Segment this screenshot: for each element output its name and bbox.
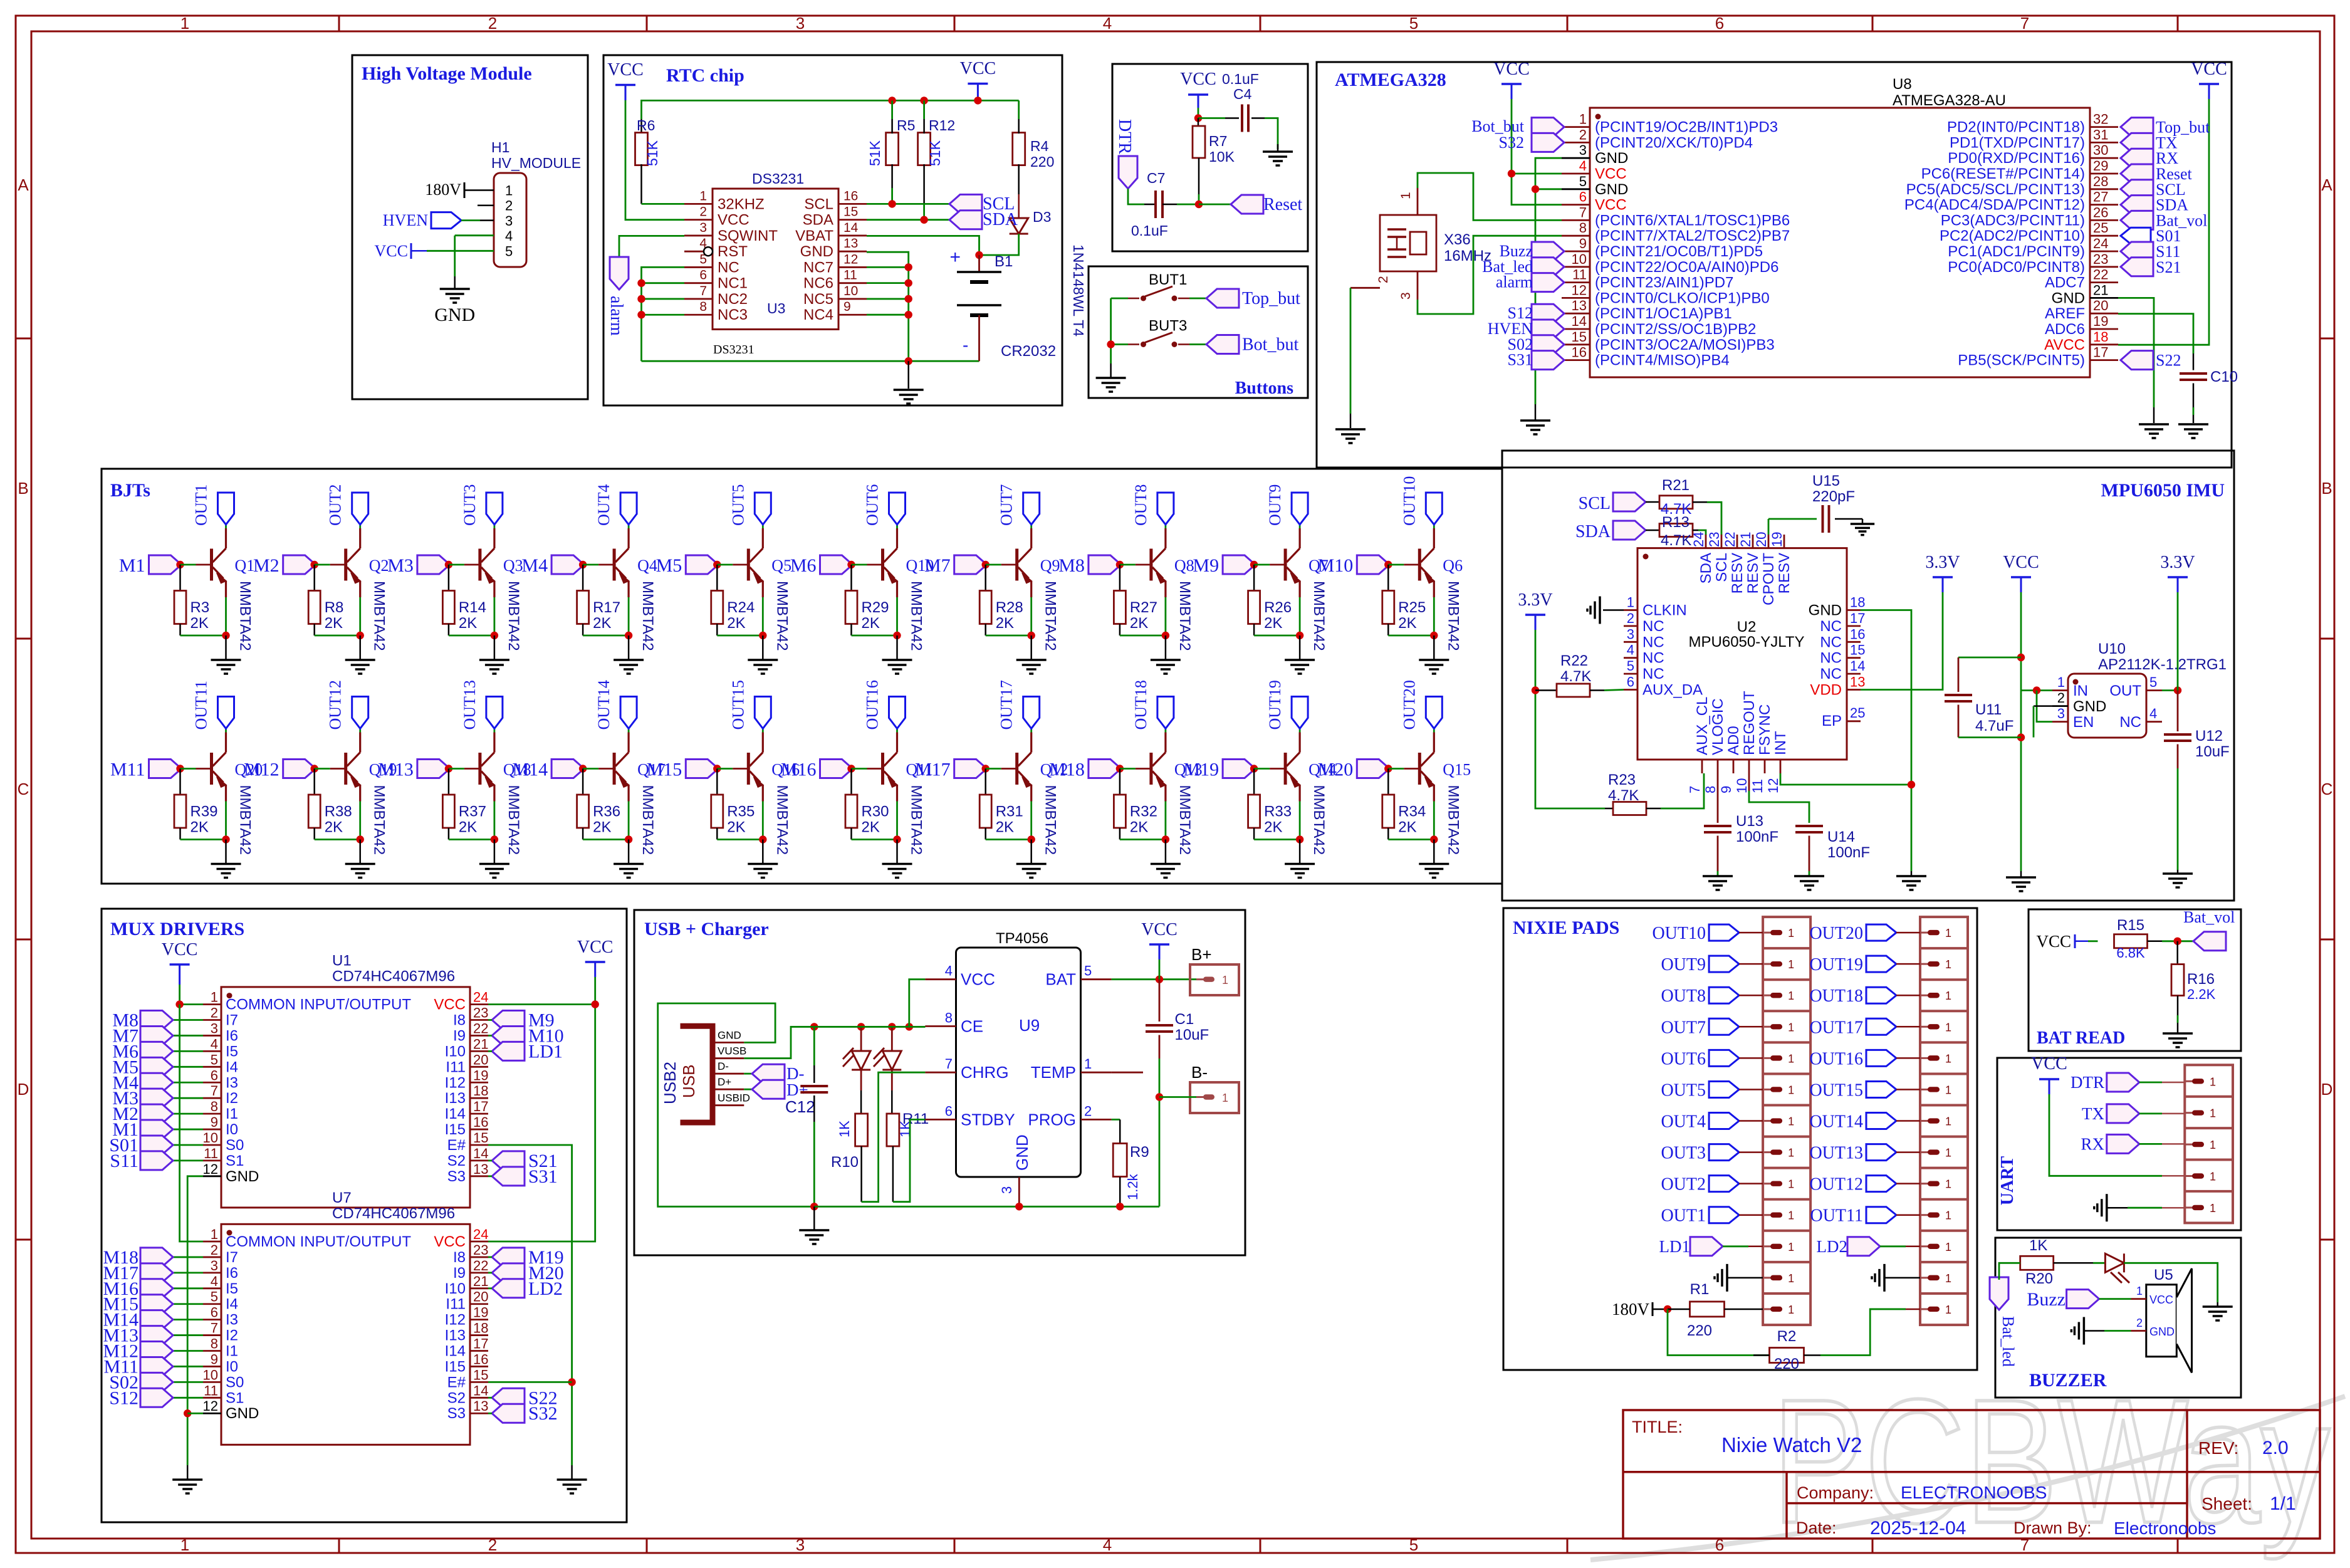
svg-text:2K: 2K — [1264, 819, 1282, 836]
wire emitter to resistor — [717, 839, 763, 840]
wire base — [1254, 768, 1270, 770]
svg-text:1: 1 — [1788, 1241, 1794, 1253]
resistor R30 2K — [850, 769, 852, 795]
svg-text:D3: D3 — [1033, 209, 1051, 225]
port M4 — [173, 1082, 203, 1084]
svg-text:MMBTA42: MMBTA42 — [1310, 581, 1327, 651]
section box MPU6050 IMU — [1502, 451, 2234, 901]
svg-text:PC6(RESET#/PCINT14): PC6(RESET#/PCINT14) — [1921, 165, 2085, 182]
port OUT17 — [1030, 729, 1032, 733]
svg-text:12: 12 — [843, 252, 858, 266]
wire VCC to GND vertical — [454, 236, 456, 276]
resistor R14 2K — [448, 565, 450, 591]
wire VCC to pad4 — [2049, 1094, 2162, 1176]
svg-text:6.8K: 6.8K — [2116, 945, 2145, 961]
svg-text:1: 1 — [1788, 1116, 1794, 1128]
wire base — [583, 768, 598, 770]
svg-text:OUT: OUT — [2109, 682, 2141, 699]
svg-text:I12: I12 — [445, 1312, 466, 1329]
IC U2 MPU6050-YJLTY — [1637, 548, 1847, 760]
port M19 — [1223, 760, 1255, 778]
section box RTC chip — [603, 55, 1062, 405]
U8 pin 1 (PCINT19/OC2B/INT1)PD3 — [1562, 126, 1590, 128]
U8 pin 13 (PCINT1/OC1A)PB1 — [1562, 313, 1590, 315]
svg-text:21: 21 — [2093, 282, 2108, 298]
U2 pin 8 VLOGIC — [1717, 760, 1719, 773]
svg-text:PC4(ADC4/SDA/PCINT12): PC4(ADC4/SDA/PCINT12) — [1904, 197, 2085, 214]
svg-text:HVEN: HVEN — [383, 211, 428, 229]
U7 pin 13 S3 — [470, 1413, 488, 1414]
svg-text:REV:: REV: — [2198, 1438, 2238, 1458]
svg-text:7: 7 — [945, 1056, 953, 1072]
wire LED to ground — [2124, 1263, 2217, 1302]
svg-text:SCL: SCL — [804, 196, 833, 212]
svg-text:3: 3 — [796, 14, 805, 33]
svg-text:TEMP: TEMP — [1031, 1063, 1076, 1082]
svg-text:10: 10 — [1572, 251, 1587, 267]
svg-text:(PCINT0/CLKO/ICP1)PB0: (PCINT0/CLKO/ICP1)PB0 — [1595, 290, 1770, 306]
ground — [1433, 635, 1435, 659]
svg-text:RESV: RESV — [1729, 553, 1746, 593]
pin 6 NC1 — [684, 282, 713, 284]
svg-text:M14: M14 — [512, 760, 548, 780]
U7 pin 17 I14 — [470, 1350, 488, 1352]
svg-text:16: 16 — [1850, 626, 1865, 642]
svg-text:M12: M12 — [244, 760, 279, 780]
svg-text:D: D — [2321, 1080, 2333, 1099]
junction emitter — [1296, 835, 1303, 843]
junction emitter — [1296, 632, 1303, 639]
port M13 — [173, 1334, 203, 1336]
junction base — [445, 765, 452, 772]
U2 pin 22 RESV — [1736, 535, 1738, 548]
port M12 — [173, 1350, 203, 1352]
port D+ — [744, 1089, 752, 1090]
svg-text:PC0(ADC0/PCINT8): PC0(ADC0/PCINT8) — [1948, 259, 2085, 276]
port Bat_led — [1990, 1277, 2008, 1310]
svg-text:I13: I13 — [445, 1327, 466, 1344]
svg-text:U8: U8 — [1893, 76, 1912, 93]
wire left vertical — [1110, 298, 1112, 363]
port M16 — [820, 760, 853, 778]
svg-text:SCL: SCL — [1713, 553, 1730, 582]
U7 pin 19 I12 — [470, 1319, 488, 1320]
svg-text:M11: M11 — [110, 760, 145, 780]
U2 pin 21 RESV — [1752, 535, 1754, 548]
svg-text:S2: S2 — [447, 1389, 466, 1406]
svg-text:VCC: VCC — [961, 970, 995, 989]
svg-text:VCC: VCC — [434, 1233, 466, 1250]
port M11 — [149, 760, 182, 778]
svg-text:1: 1 — [1945, 1178, 1951, 1191]
wire emitter to resistor — [180, 839, 226, 840]
svg-text:OUT8: OUT8 — [1661, 986, 1706, 1006]
svg-text:12: 12 — [203, 1398, 218, 1414]
svg-text:I11: I11 — [446, 1058, 466, 1075]
wire OUT to 3.3V and U12 — [2162, 689, 2178, 691]
svg-text:R36: R36 — [593, 803, 620, 820]
svg-text:5: 5 — [211, 1052, 218, 1067]
svg-text:(PCINT21/OC0B/T1)PD5: (PCINT21/OC0B/T1)PD5 — [1595, 243, 1763, 260]
svg-text:27: 27 — [2093, 189, 2108, 205]
svg-text:1: 1 — [1945, 1147, 1951, 1159]
svg-text:24: 24 — [473, 1226, 488, 1242]
svg-text:1: 1 — [1788, 1272, 1794, 1285]
pin 2 stub — [478, 204, 494, 206]
svg-text:1: 1 — [699, 189, 707, 203]
svg-text:R29: R29 — [862, 599, 889, 616]
svg-text:USB: USB — [679, 1065, 698, 1098]
ground — [907, 361, 909, 389]
svg-text:VLOGIC: VLOGIC — [1710, 698, 1726, 755]
wire VCC to U1 pin24 and U7 pin24 — [488, 1003, 595, 1005]
wire AVCC pin18 to VCC — [2118, 99, 2209, 345]
svg-text:I1: I1 — [226, 1343, 238, 1360]
svg-text:2: 2 — [2136, 1317, 2143, 1329]
wire emitter to resistor — [449, 839, 494, 840]
transistor Q20 MMBTA42 — [210, 753, 213, 785]
svg-text:31: 31 — [2093, 127, 2108, 142]
svg-text:BUZZER: BUZZER — [2029, 1370, 2107, 1391]
port M9 — [1223, 555, 1255, 574]
svg-text:Bat_led: Bat_led — [1999, 1316, 2017, 1367]
svg-text:VCC: VCC — [577, 938, 614, 957]
port S11 — [2121, 242, 2153, 261]
svg-text:R2: R2 — [1777, 1328, 1797, 1345]
svg-text:1: 1 — [211, 990, 218, 1005]
svg-text:PC2(ADC2/PCINT10): PC2(ADC2/PCINT10) — [1940, 227, 2085, 244]
svg-text:S31: S31 — [528, 1166, 558, 1187]
port M2 — [173, 1113, 203, 1115]
svg-text:R15: R15 — [2117, 917, 2144, 934]
svg-text:C10: C10 — [2210, 368, 2238, 385]
pin 3 SQWINT — [684, 235, 713, 237]
svg-text:26: 26 — [2093, 204, 2108, 220]
port S32 — [492, 1404, 525, 1423]
junction emitter — [1162, 835, 1169, 843]
svg-text:VBAT: VBAT — [795, 227, 833, 244]
USB pin D+ — [715, 1089, 744, 1090]
svg-text:R3: R3 — [191, 599, 210, 616]
U8 pin 16 (PCINT4/MISO)PB4 — [1562, 359, 1590, 361]
svg-text:S3: S3 — [447, 1405, 466, 1422]
wire base — [315, 768, 330, 770]
ground — [1433, 840, 1435, 864]
svg-text:2K: 2K — [1130, 615, 1148, 632]
svg-text:18: 18 — [2093, 329, 2108, 345]
svg-text:OUT6: OUT6 — [1661, 1049, 1706, 1069]
svg-text:RX: RX — [2081, 1134, 2104, 1153]
svg-text:+: + — [949, 247, 961, 268]
U7 pin 3 I6 — [203, 1272, 221, 1273]
wire VCC to IN and EN — [2021, 689, 2052, 691]
transistor Q12 MMBTA42 — [1015, 753, 1018, 785]
transistor Q6 MMBTA42 — [1418, 549, 1421, 581]
svg-text:6: 6 — [699, 268, 707, 283]
svg-text:1: 1 — [1627, 595, 1634, 610]
svg-text:OUT10: OUT10 — [1652, 924, 1706, 943]
svg-text:Q1: Q1 — [235, 557, 255, 575]
svg-text:8: 8 — [1579, 220, 1587, 236]
svg-text:2K: 2K — [459, 615, 477, 632]
svg-text:S32: S32 — [528, 1403, 558, 1424]
svg-text:100nF: 100nF — [1736, 828, 1778, 845]
svg-text:6: 6 — [1627, 674, 1634, 690]
svg-text:U2: U2 — [1737, 619, 1757, 635]
svg-text:1K: 1K — [2029, 1237, 2047, 1254]
svg-text:NC2: NC2 — [718, 291, 748, 308]
svg-text:4: 4 — [505, 228, 513, 244]
svg-text:VCC: VCC — [162, 940, 198, 959]
wire AREF pin20 to C10 — [2118, 314, 2193, 353]
wire 180V to R2 — [1668, 1309, 1770, 1356]
svg-text:AP2112K-1.2TRG1: AP2112K-1.2TRG1 — [2098, 656, 2227, 673]
svg-text:OUT10: OUT10 — [1400, 476, 1418, 526]
svg-text:U14: U14 — [1827, 828, 1855, 845]
svg-text:GND: GND — [1595, 181, 1628, 198]
svg-text:12: 12 — [1572, 282, 1587, 298]
ground — [1165, 635, 1167, 659]
U1 pin 10 S0 — [203, 1144, 221, 1146]
ground — [1851, 523, 1874, 525]
svg-text:VCC: VCC — [2031, 1054, 2067, 1074]
svg-text:OUT7: OUT7 — [998, 484, 1016, 526]
svg-text:S12: S12 — [109, 1388, 138, 1408]
svg-text:5: 5 — [2149, 674, 2157, 690]
resistor R39 2K — [179, 769, 181, 795]
svg-text:18: 18 — [473, 1320, 488, 1336]
svg-text:SDA: SDA — [983, 210, 1018, 229]
port OUT11 — [1866, 1207, 1896, 1223]
wire GND pin18 — [1861, 610, 1911, 872]
port OUT14 — [628, 729, 630, 733]
USB pin GND — [715, 1042, 744, 1043]
svg-text:U11: U11 — [1975, 701, 2002, 718]
port OUT13 — [1866, 1144, 1896, 1161]
svg-text:4.7K: 4.7K — [1661, 532, 1691, 549]
svg-text:22: 22 — [473, 1258, 488, 1273]
svg-text:21: 21 — [473, 1273, 488, 1289]
wire emitter to resistor — [315, 635, 360, 637]
port M10 — [492, 1026, 525, 1045]
svg-text:I3: I3 — [226, 1074, 238, 1091]
svg-text:17: 17 — [473, 1336, 488, 1352]
svg-text:NC: NC — [1642, 634, 1664, 651]
svg-text:4: 4 — [1103, 14, 1112, 33]
svg-text:S1: S1 — [226, 1389, 244, 1406]
svg-text:17: 17 — [2093, 345, 2108, 360]
svg-text:I12: I12 — [445, 1074, 466, 1091]
svg-text:R13: R13 — [1662, 514, 1689, 531]
svg-text:1: 1 — [2136, 1285, 2143, 1297]
svg-text:ATMEGA328: ATMEGA328 — [1335, 70, 1446, 90]
U2 pin 19 RESV — [1783, 535, 1785, 548]
svg-text:OUT15: OUT15 — [1809, 1080, 1863, 1100]
svg-text:1: 1 — [1788, 1052, 1794, 1065]
svg-text:MMBTA42: MMBTA42 — [237, 785, 254, 855]
svg-text:AVCC: AVCC — [2044, 337, 2085, 353]
wire emitter to resistor — [583, 839, 629, 840]
junction emitter — [893, 835, 901, 843]
port Bat_led — [1532, 258, 1564, 276]
capacitor U12 10uF — [2177, 691, 2179, 731]
port SCL — [2121, 180, 2153, 199]
U2 pin 25 EP — [1847, 720, 1861, 722]
svg-text:I5: I5 — [226, 1043, 238, 1060]
port S32 pin2 — [1532, 133, 1564, 152]
svg-text:AUX_CL: AUX_CL — [1694, 697, 1711, 755]
svg-text:6: 6 — [1715, 14, 1724, 33]
port OUT19 — [1866, 956, 1896, 972]
svg-text:I10: I10 — [445, 1280, 466, 1297]
svg-text:OUT2: OUT2 — [326, 484, 345, 526]
wire emitter to resistor — [852, 839, 897, 840]
junction emitter — [1028, 835, 1035, 843]
svg-text:M17: M17 — [915, 760, 951, 780]
svg-text:PD0(RXD/PCINT16): PD0(RXD/PCINT16) — [1948, 150, 2085, 167]
svg-text:4: 4 — [1579, 158, 1587, 174]
connector UART header — [2185, 1065, 2233, 1223]
wire emitter to resistor — [449, 635, 494, 637]
port M14 — [551, 760, 584, 778]
U9 pin 4 VCC — [925, 978, 956, 980]
resistor R11 1K — [891, 1090, 893, 1114]
junction base — [1250, 561, 1258, 568]
svg-text:180V: 180V — [425, 180, 461, 199]
svg-text:RESV: RESV — [1745, 553, 1762, 593]
svg-text:MMBTA42: MMBTA42 — [908, 581, 925, 651]
svg-text:OUT13: OUT13 — [1809, 1144, 1863, 1163]
svg-text:R34: R34 — [1398, 803, 1426, 820]
svg-text:I15: I15 — [445, 1121, 466, 1138]
svg-text:1: 1 — [505, 183, 513, 199]
svg-text:alarm: alarm — [607, 296, 626, 336]
port OUT7 — [1709, 1018, 1739, 1035]
port M1 — [173, 1129, 203, 1131]
junction base — [982, 765, 990, 772]
wire base — [1120, 768, 1136, 770]
port SDA — [1613, 521, 1646, 540]
U1 pin 1 COMMON INPUT/OUTPUT — [203, 1003, 221, 1005]
svg-text:OUT14: OUT14 — [1809, 1112, 1863, 1132]
U8 pin 22 ADC7 — [2090, 281, 2118, 283]
junction emitter — [759, 835, 766, 843]
svg-text:CD74HC4067M96: CD74HC4067M96 — [332, 1205, 455, 1222]
port M11 — [173, 1366, 203, 1367]
wire base — [986, 564, 1001, 566]
svg-text:NC: NC — [1642, 666, 1664, 682]
port M5 — [173, 1066, 203, 1068]
resistor R34 2K — [1387, 769, 1389, 795]
svg-text:1: 1 — [1945, 1241, 1951, 1253]
wire emitter to resistor — [1254, 635, 1300, 637]
port OUT4 — [1709, 1113, 1739, 1129]
svg-text:I9: I9 — [453, 1265, 466, 1282]
resistor R24 2K — [716, 565, 718, 591]
svg-text:I10: I10 — [445, 1043, 466, 1060]
wire base — [180, 564, 196, 566]
svg-text:4.7K: 4.7K — [1560, 668, 1591, 685]
junction emitter — [625, 632, 632, 639]
svg-text:2.0: 2.0 — [2262, 1438, 2289, 1458]
svg-text:9: 9 — [211, 1351, 218, 1367]
svg-text:1: 1 — [1222, 1092, 1228, 1104]
svg-text:I14: I14 — [445, 1343, 466, 1360]
wire base — [1388, 564, 1404, 566]
port M2 — [283, 555, 316, 574]
svg-text:10: 10 — [203, 1367, 218, 1382]
svg-text:1: 1 — [1945, 1116, 1951, 1128]
wire VDD to 3.3V — [1861, 592, 1943, 690]
U1 pin 8 I1 — [203, 1113, 221, 1115]
port M20 — [492, 1263, 525, 1282]
U8 pin 24 PC1(ADC1/PCINT9) — [2090, 251, 2118, 253]
svg-text:51K: 51K — [644, 140, 661, 166]
port S22 — [2121, 351, 2153, 370]
svg-text:R5: R5 — [897, 117, 915, 133]
svg-text:ATMEGA328-AU: ATMEGA328-AU — [1893, 92, 2006, 109]
port OUT10 — [1709, 924, 1739, 941]
svg-text:2.2K: 2.2K — [2187, 986, 2216, 1002]
svg-text:R4: R4 — [1030, 138, 1049, 154]
svg-text:VCC: VCC — [1595, 165, 1627, 182]
svg-text:1: 1 — [2057, 674, 2065, 690]
section box High Voltage Module — [352, 55, 588, 399]
svg-text:VCC: VCC — [960, 59, 996, 78]
svg-text:EP: EP — [1822, 713, 1842, 729]
svg-text:3: 3 — [2057, 706, 2065, 721]
svg-text:4: 4 — [211, 1273, 218, 1289]
port Buzz — [1532, 242, 1564, 261]
svg-text:OUT18: OUT18 — [1809, 986, 1863, 1006]
svg-text:1: 1 — [1788, 1210, 1794, 1222]
wire base — [315, 564, 330, 566]
U2 pin 5 NC — [1624, 673, 1637, 675]
svg-text:R23: R23 — [1608, 771, 1636, 788]
wire VCC pin4 — [909, 980, 926, 1027]
svg-text:I4: I4 — [226, 1058, 238, 1075]
section box BAT READ — [2029, 909, 2241, 1051]
svg-text:3.3V: 3.3V — [2160, 553, 2195, 572]
svg-text:12: 12 — [1765, 778, 1781, 793]
svg-text:R20: R20 — [2025, 1270, 2053, 1287]
crystal X36 16MHz — [1380, 215, 1436, 271]
port D- — [744, 1073, 752, 1075]
svg-text:STDBY: STDBY — [961, 1110, 1015, 1129]
svg-text:2K: 2K — [862, 819, 880, 836]
svg-text:R14: R14 — [459, 599, 486, 616]
resistor R32 2K — [1119, 769, 1121, 795]
svg-text:GND: GND — [1595, 150, 1628, 167]
svg-text:R8: R8 — [325, 599, 344, 616]
svg-text:15: 15 — [473, 1130, 488, 1146]
transistor Q19 MMBTA42 — [344, 753, 347, 785]
svg-text:Date:: Date: — [1796, 1518, 1837, 1537]
svg-text:R33: R33 — [1264, 803, 1292, 820]
transistor Q14 MMBTA42 — [1284, 753, 1287, 785]
ground — [2163, 1032, 2193, 1035]
U8 pin 9 (PCINT21/OC0B/T1)PD5 — [1562, 251, 1590, 253]
svg-text:R24: R24 — [727, 599, 755, 616]
wire INT to GND net — [1780, 773, 1911, 785]
svg-text:Q2: Q2 — [369, 557, 389, 575]
svg-text:R1: R1 — [1690, 1281, 1710, 1298]
svg-text:S32: S32 — [1499, 133, 1524, 152]
svg-text:LD2: LD2 — [528, 1278, 563, 1299]
U2 pin 17 NC — [1847, 625, 1861, 627]
svg-text:25: 25 — [1850, 705, 1865, 721]
port S11 — [173, 1160, 203, 1162]
